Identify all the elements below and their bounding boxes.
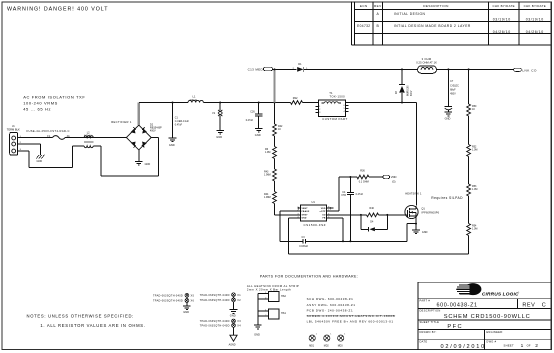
svg-text:6: 6	[344, 105, 345, 107]
svg-text:GND: GND	[145, 163, 151, 166]
svg-text:REV: REV	[522, 302, 535, 308]
svg-text:03/19/10: 03/19/10	[526, 18, 544, 22]
svg-text:DESCRIPTION: DESCRIPTION	[423, 4, 449, 8]
svg-text:SCREW-4-40X3/8-MOUNT-HEATSINK-: SCREW-4-40X3/8-MOUNT-HEATSINK-KIT-4880B	[307, 314, 396, 318]
svg-text:HEATSINK 1: HEATSINK 1	[405, 191, 422, 195]
svg-text:MD3: MD3	[338, 345, 344, 347]
svg-text:VBST: VBST	[302, 208, 309, 210]
svg-text:GND: GND	[230, 314, 236, 318]
svg-text:1.0M: 1.0M	[472, 228, 477, 231]
svg-text:TPAD-063SQTH-040D: TPAD-063SQTH-040D	[153, 300, 183, 303]
svg-text:1: 1	[316, 333, 317, 335]
svg-text:1.96M: 1.96M	[264, 174, 271, 177]
svg-text:SCHEM CRD1500-90WLLC: SCHEM CRD1500-90WLLC	[444, 314, 531, 320]
svg-text:4A: 4A	[67, 135, 70, 138]
svg-text:X7R: X7R	[341, 194, 346, 197]
svg-text:R36: R36	[360, 170, 365, 173]
svg-text:B: B	[376, 24, 379, 28]
svg-text:HS2: HS2	[281, 295, 286, 298]
svg-text:FB: FB	[323, 218, 326, 220]
svg-text:(G): (G)	[392, 180, 396, 183]
svg-text:3 OHM: 3 OHM	[422, 57, 432, 61]
svg-text:TPAD-063SQTH-040D: TPAD-063SQTH-040D	[200, 294, 230, 297]
svg-text:GND: GND	[302, 218, 307, 220]
svg-text:0.25 OHM AT 1K: 0.25 OHM AT 1K	[416, 60, 437, 64]
svg-text:X2: X2	[237, 299, 241, 302]
svg-text:RECTIFIER 1: RECTIFIER 1	[111, 120, 132, 124]
svg-text:AGND: AGND	[229, 344, 236, 347]
svg-text:1.9M: 1.9M	[265, 151, 270, 154]
svg-text:C-CER-0.1uF: C-CER-0.1uF	[175, 121, 190, 123]
svg-text:D1: D1	[298, 62, 302, 66]
svg-text:1K: 1K	[472, 108, 475, 111]
svg-text:1.96M: 1.96M	[264, 196, 271, 199]
svg-text:0.47uF: 0.47uF	[175, 124, 183, 126]
svg-text:SCH DWG- 600-00438-Z1: SCH DWG- 600-00438-Z1	[307, 297, 354, 301]
svg-text:330uH: 330uH	[190, 98, 198, 102]
svg-text:4: 4	[344, 111, 345, 113]
svg-text:1: 1	[298, 207, 299, 209]
svg-text:1: 1	[344, 333, 345, 335]
svg-text:T1: T1	[329, 91, 333, 95]
svg-text:FBAUX: FBAUX	[302, 210, 310, 213]
svg-text:CUSTOM PART: CUSTOM PART	[322, 117, 347, 121]
svg-text:8: 8	[328, 207, 329, 209]
svg-text:400V: 400V	[150, 130, 156, 133]
svg-text:02/09/2010: 02/09/2010	[441, 344, 487, 350]
svg-text:2: 2	[319, 109, 320, 111]
svg-text:2: 2	[265, 297, 266, 299]
svg-text:0.47uF: 0.47uF	[356, 193, 364, 196]
svg-text:04/26/10: 04/26/10	[526, 30, 544, 34]
svg-text:03/19/10: 03/19/10	[493, 18, 511, 22]
svg-text:R40: R40	[370, 207, 375, 210]
svg-text:1: 1	[265, 292, 266, 294]
svg-text:TERM BLK: TERM BLK	[7, 128, 20, 132]
svg-text:ECN: ECN	[360, 4, 368, 8]
svg-text:600-00438-Z1: 600-00438-Z1	[437, 303, 478, 309]
svg-text:STBY: STBY	[302, 215, 309, 217]
svg-text:1: 1	[521, 343, 524, 349]
svg-text:2: 2	[535, 343, 538, 349]
svg-text:C: C	[542, 302, 546, 308]
svg-text:TPAD-063SQTH-040D: TPAD-063SQTH-040D	[200, 299, 230, 302]
svg-text:GND: GND	[254, 333, 260, 337]
svg-text:C26: C26	[250, 111, 255, 114]
svg-text:1.0M: 1.0M	[472, 149, 477, 152]
svg-text:GND: GND	[255, 133, 261, 137]
svg-text:LBL 546450V FREE B+ AND REV: LBL 546450V FREE B+ AND REV 600-00013-01	[307, 320, 394, 324]
svg-text:DESCRIPTION: DESCRIPTION	[420, 309, 441, 313]
svg-text:68uF: 68uF	[450, 88, 456, 91]
svg-text:AC FROM ISOLATION TXF: AC FROM ISOLATION TXF	[23, 94, 85, 99]
svg-text:TOK-1500: TOK-1500	[330, 95, 346, 99]
svg-text:NOTES: UNLESS OTHERWISE SPECIF: NOTES: UNLESS OTHERWISE SPECIFIED:	[27, 314, 135, 319]
svg-text:450V: 450V	[450, 92, 456, 95]
svg-text:C-ELEC: C-ELEC	[450, 84, 459, 87]
svg-text:3: 3	[319, 112, 320, 114]
svg-text:TPAD-063SQTH-040D: TPAD-063SQTH-040D	[153, 294, 183, 297]
svg-text:X1: X1	[237, 294, 241, 297]
svg-text:GND: GND	[169, 143, 175, 147]
svg-text:5: 5	[328, 216, 329, 218]
svg-text:GND: GND	[37, 160, 43, 163]
svg-text:LNK CO: LNK CO	[522, 69, 537, 73]
svg-text:0.1 OHM: 0.1 OHM	[359, 180, 369, 183]
svg-text:1K: 1K	[278, 128, 281, 131]
svg-text:X6: X6	[191, 300, 195, 303]
svg-text:600V: 600V	[411, 90, 413, 96]
svg-text:7: 7	[328, 210, 329, 212]
svg-text:2: 2	[298, 210, 299, 212]
svg-text:DWG #: DWG #	[486, 340, 496, 344]
svg-text:X5: X5	[191, 294, 195, 297]
svg-text:1. ALL RESISTOR VALUES ARE IN: 1. ALL RESISTOR VALUES ARE IN OHMS.	[40, 323, 145, 328]
svg-text:INITIAL DESIGN: INITIAL DESIGN	[394, 12, 426, 16]
svg-text:C13 MED: C13 MED	[248, 68, 264, 72]
svg-text:E04732: E04732	[357, 24, 370, 28]
svg-text:4: 4	[298, 216, 299, 218]
svg-text:PARTS FOR DOCUMENTATION AND HA: PARTS FOR DOCUMENTATION AND HARDWARE:	[260, 274, 358, 278]
svg-text:0.47uF: 0.47uF	[246, 119, 254, 122]
svg-text:DATE: DATE	[420, 340, 428, 344]
svg-text:2: 2	[265, 315, 266, 317]
svg-text:GND: GND	[183, 310, 189, 314]
svg-text:VDD: VDD	[321, 208, 326, 210]
svg-text:DRAWN BY:: DRAWN BY:	[420, 330, 437, 334]
svg-text:3: 3	[298, 213, 299, 215]
svg-text:GD: GD	[322, 215, 326, 217]
svg-text:1.0M: 1.0M	[472, 188, 477, 191]
svg-text:MD1: MD1	[309, 345, 315, 347]
svg-text:100-240 VRMS: 100-240 VRMS	[23, 101, 58, 106]
svg-text:TPAD-063SQTH-040D: TPAD-063SQTH-040D	[200, 320, 230, 323]
svg-text:U1: U1	[312, 200, 316, 204]
svg-text:FUSE-4A-250V-FST4-RAD-C: FUSE-4A-250V-FST4-RAD-C	[27, 129, 70, 133]
svg-text:MURS160: MURS160	[408, 85, 410, 96]
svg-text:INTIAL DESIGN MADE BOARD 2 LAY: INTIAL DESIGN MADE BOARD 2 LAYER	[394, 24, 471, 28]
svg-text:X4: X4	[237, 325, 241, 328]
svg-text:6: 6	[328, 213, 329, 215]
svg-text:0.033uF: 0.033uF	[299, 245, 308, 248]
svg-text:HS1: HS1	[281, 312, 286, 315]
svg-text:VDD: VDD	[391, 175, 397, 179]
svg-text:GND: GND	[422, 231, 428, 234]
svg-text:OF: OF	[527, 343, 531, 347]
svg-text:CIRRUS LOGIC: CIRRUS LOGIC	[482, 291, 519, 297]
svg-text:PFC: PFC	[447, 324, 463, 330]
svg-text:04/26/10: 04/26/10	[493, 30, 511, 34]
svg-text:Q1: Q1	[421, 206, 425, 210]
svg-text:1: 1	[319, 106, 320, 108]
svg-text:V1: V1	[212, 111, 216, 115]
svg-text:IPP60R600P6: IPP60R600P6	[421, 211, 439, 214]
svg-text:WARNING! DANGER! 400 VOLT: WARNING! DANGER! 400 VOLT	[7, 6, 108, 12]
svg-text:TPAD-063SQTH-040D: TPAD-063SQTH-040D	[200, 325, 230, 328]
svg-text:eOTP: eOTP	[320, 211, 326, 213]
svg-text:1: 1	[265, 309, 266, 311]
svg-text:CS1500-FSZ: CS1500-FSZ	[304, 223, 327, 227]
svg-text:ENGINEER:: ENGINEER:	[486, 330, 503, 334]
svg-text:GND: GND	[216, 135, 222, 139]
svg-text:Requires SILPAD: Requires SILPAD	[431, 196, 463, 200]
svg-text:1: 1	[330, 333, 331, 335]
svg-text:X3: X3	[237, 320, 241, 323]
svg-text:PCB DWG- 240-00438-Z1: PCB DWG- 240-00438-Z1	[307, 309, 354, 313]
svg-text:REV: REV	[374, 4, 382, 8]
svg-text:PART #: PART #	[420, 299, 431, 303]
svg-text:SHEET TITLE: SHEET TITLE	[420, 320, 440, 324]
svg-text:MD2: MD2	[324, 345, 330, 347]
svg-text:CHK BY/DATE: CHK BY/DATE	[493, 4, 515, 8]
svg-text:5: 5	[344, 108, 345, 110]
svg-text:A: A	[376, 12, 379, 16]
svg-text:GND: GND	[445, 116, 451, 120]
svg-text:SHEET: SHEET	[504, 343, 515, 347]
svg-text:ASSY DWG- 600-00438-Z1: ASSY DWG- 600-00438-Z1	[307, 303, 356, 307]
svg-text:45 ... 65 Hz: 45 ... 65 Hz	[23, 106, 51, 111]
svg-text:R32: R32	[293, 96, 298, 100]
svg-text:2mm X 20mm X Bar Length: 2mm X 20mm X Bar Length	[247, 287, 291, 291]
svg-text:CHK BY/DATE: CHK BY/DATE	[524, 4, 546, 8]
